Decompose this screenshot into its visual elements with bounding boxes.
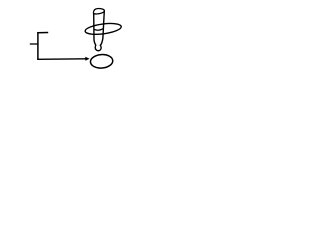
arrowhead — [85, 57, 89, 61]
ellipse node (bottom oval) — [90, 54, 113, 69]
plunger top cap — [93, 8, 104, 13]
node tick (left stub) — [30, 43, 39, 45]
wire: top horizontal stub — [37, 32, 48, 34]
wire: vertical segment — [37, 32, 39, 60]
plunger body (cylinder sides + taper + rounded tip) — [94, 11, 105, 51]
washer hole rim (front arc around cylinder) — [94, 29, 103, 31]
wire: bottom horizontal to arrow — [37, 58, 86, 61]
plunger disc (tilted washer) — [85, 22, 122, 36]
